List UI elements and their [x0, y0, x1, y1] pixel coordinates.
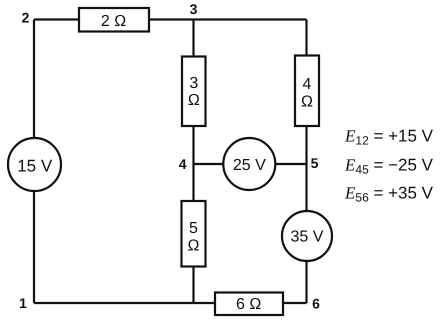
source 25 V: [223, 138, 275, 190]
wire node 4 to node 5: [194, 163, 307, 165]
svg-text:Ω: Ω: [301, 94, 313, 111]
wire right branch: top corner down to node 6: [305, 20, 307, 304]
resistor 2 ohm: [79, 8, 149, 32]
svg-text:3: 3: [189, 75, 198, 92]
source 35 V: [282, 211, 332, 261]
svg-text:2 Ω: 2 Ω: [101, 13, 126, 30]
svg-text:15 V: 15 V: [17, 157, 53, 176]
svg-text:6 Ω: 6 Ω: [236, 296, 261, 313]
svg-text:Ω: Ω: [188, 238, 200, 255]
resistor 3 ohm: [182, 57, 206, 127]
resistor 6 ohm: [215, 293, 283, 316]
svg-text:25 V: 25 V: [233, 157, 266, 174]
svg-text:5: 5: [189, 220, 198, 237]
svg-text:35 V: 35 V: [291, 229, 324, 246]
svg-text:E56 = +35 V: E56 = +35 V: [344, 184, 434, 205]
resistor 4 ohm: [295, 56, 319, 127]
svg-text:3: 3: [190, 1, 198, 17]
resistor 5 ohm: [182, 201, 206, 267]
svg-text:5: 5: [311, 155, 319, 171]
svg-text:4: 4: [179, 156, 187, 172]
svg-text:Ω: Ω: [188, 92, 200, 109]
svg-text:1: 1: [19, 295, 27, 311]
wire bottom: node 1 to node 6: [34, 302, 307, 304]
wire left: node 2 to node 1: [33, 20, 35, 304]
svg-text:4: 4: [303, 76, 312, 93]
svg-text:E45 = −25 V: E45 = −25 V: [344, 156, 434, 177]
svg-text:2: 2: [22, 10, 30, 26]
wire middle branch: node 3 down to bottom wire: [192, 20, 194, 304]
source 15 V: [8, 138, 61, 191]
wire top: node 2 to top-right corner: [34, 18, 307, 20]
svg-text:E12 = +15 V: E12 = +15 V: [344, 127, 434, 148]
svg-text:6: 6: [312, 296, 320, 312]
